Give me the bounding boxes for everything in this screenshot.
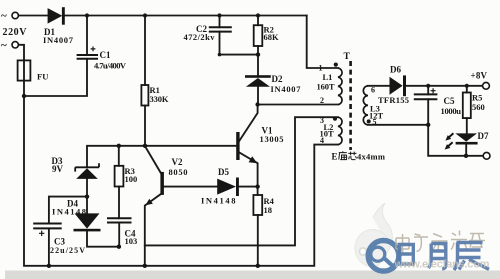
svg-text:T: T (344, 52, 351, 62)
svg-text:103: 103 (125, 236, 138, 246)
watermark text dianzifashaoyou (drawn strokes) (396, 231, 485, 255)
diode D6 (390, 75, 407, 96)
node C2/R2 bottom (256, 52, 260, 56)
svg-text:472/2kv: 472/2kv (184, 32, 216, 42)
capacitor C1 (77, 55, 98, 59)
wire: R3 bottom lead to C4 (118, 187, 120, 219)
svg-text:~: ~ (1, 40, 7, 52)
wire: R5 top lead (466, 86, 468, 93)
C3 plus sign (39, 231, 44, 236)
svg-text:18: 18 (264, 205, 273, 215)
svg-text:68K: 68K (264, 32, 280, 42)
node D2/V1 collector/L1 pin2 (255, 102, 259, 106)
node D7/negative rail (464, 154, 468, 158)
D7 light arrow 1 (445, 133, 453, 140)
resistor R5 (463, 93, 471, 119)
input terminal 2 (12, 42, 18, 48)
svg-text:330K: 330K (150, 94, 169, 104)
wire: D4 anode lead (86, 197, 88, 214)
wire: C2 top lead (219, 16, 221, 28)
input terminal 1 (12, 12, 18, 18)
svg-text:D2: D2 (272, 74, 283, 84)
wire: R2 top lead (257, 16, 259, 26)
node L3 pin5/C5 bottom (426, 123, 430, 127)
wire: R1 top lead (144, 16, 146, 86)
wire: top rail from D1 cathode to primary corner (65, 15, 307, 17)
L3 phasing dot (367, 119, 371, 123)
svg-text:4x4mm: 4x4mm (357, 152, 385, 162)
wire: V2 base lead to D5 anode (164, 186, 217, 188)
node R3 top (117, 144, 121, 148)
svg-text:C1: C1 (100, 50, 111, 60)
resistor R2 (254, 25, 263, 46)
transformer winding L1 (338, 68, 342, 105)
wire: feedback line from V2 emitter column to L2 pin3 (145, 117, 338, 245)
watermark logo ring (368, 241, 399, 272)
output terminal +8V (483, 82, 490, 89)
diode D5 (217, 178, 239, 197)
svg-text:4.7u/400V: 4.7u/400V (94, 61, 127, 71)
node D4/C4 (117, 245, 121, 249)
transistor V2 (160, 172, 164, 195)
svg-text:560: 560 (472, 102, 485, 112)
resistor R4 (253, 195, 262, 215)
svg-text:IN4007: IN4007 (271, 84, 302, 94)
node C1 bottom/left rail (22, 94, 26, 98)
C5 plus sign (431, 88, 436, 93)
label E core text (332, 151, 386, 161)
wire: C1 bottom lead to left rail (24, 59, 87, 96)
wire: input terminal 1 to D1 anode (18, 15, 47, 17)
wire: R4 bottom lead (257, 215, 259, 266)
wire: V1 base rail from D3 top corner (87, 146, 236, 167)
L1 phasing dot (334, 63, 338, 67)
capacitor C3 (33, 224, 62, 229)
transformer winding L3 (363, 86, 368, 125)
resistor R1 (141, 85, 148, 106)
wire: R3 top lead (118, 146, 120, 166)
wire: D4 cathode lead to C4 bottom node (87, 231, 119, 246)
node R1/top rail (143, 13, 147, 17)
resistor R3 (115, 166, 124, 187)
svg-text:8050: 8050 (169, 167, 188, 177)
diode D1 (48, 7, 65, 25)
svg-text:D6: D6 (390, 65, 401, 75)
svg-text:100: 100 (125, 174, 138, 184)
bottom gray band (5, 271, 500, 279)
svg-text:L1: L1 (323, 72, 333, 82)
wire: R4 top lead (257, 187, 259, 195)
svg-text:22u/25V: 22u/25V (50, 246, 85, 255)
wire: R1 bottom lead (144, 106, 146, 146)
C1 plus sign (91, 47, 96, 52)
svg-text:D5: D5 (218, 167, 229, 177)
svg-text:6: 6 (371, 86, 375, 95)
wire: primary top lead to L1 pin 1 (307, 16, 338, 69)
node D3/D4/C3 (85, 194, 89, 198)
svg-text:IN4007: IN4007 (43, 35, 74, 45)
capacitor C2 (209, 27, 232, 31)
node V2 emitter/ground rail (143, 264, 147, 268)
wire: L3 pin5 lead (368, 124, 428, 126)
svg-text:E: E (332, 152, 338, 162)
svg-text:FU: FU (37, 72, 48, 82)
node R5/output rail (465, 84, 469, 88)
wire: D2 anode lead down to node (257, 87, 259, 105)
svg-text:+8V: +8V (471, 71, 488, 81)
V2 emitter arrow (145, 199, 152, 206)
wire: V1 collector lead (239, 105, 257, 141)
node C2/top rail (217, 13, 221, 17)
watermark gray teardrop background (355, 203, 392, 267)
wire: C3 top lead from D3/D4 node (49, 197, 87, 224)
wire: C5 bottom lead (427, 99, 429, 125)
wire: AC input line2 / left rail / bottom rail / L2 pin4 lead (18, 45, 338, 266)
svg-text:~: ~ (1, 10, 7, 22)
D7 light arrow 2 (445, 142, 453, 149)
node R4/ground rail (256, 264, 260, 268)
wire: D3 anode lead to node (86, 179, 88, 197)
output terminal negative (483, 152, 490, 159)
zener D3 (75, 163, 99, 179)
wire: D5 cathode to V1 emitter node (239, 186, 258, 188)
transformer winding L2 (338, 117, 342, 144)
svg-text:1000u: 1000u (441, 106, 462, 116)
svg-text:TFR155: TFR155 (378, 95, 409, 105)
svg-text:5: 5 (373, 118, 377, 127)
LED D7 (455, 133, 477, 144)
svg-text:4: 4 (320, 136, 324, 145)
svg-text:13005: 13005 (260, 134, 284, 144)
wire: C4 bottom lead (118, 223, 120, 247)
watermark text riyuechen (drawn strokes) (400, 243, 489, 271)
wire: R2 bottom lead / D2 cathode lead (257, 46, 259, 75)
svg-text:V2: V2 (172, 157, 183, 167)
wire: node at V1 collector to L1 pin 2 (258, 104, 338, 106)
node D5/V1 emitter/R4 (255, 184, 259, 188)
node C2 corner (218, 53, 222, 57)
wire: output negative rail (428, 125, 483, 156)
capacitor C5 (414, 94, 438, 99)
svg-text:C3: C3 (54, 237, 65, 247)
node C5/output rail (426, 84, 430, 88)
node C1/top rail (85, 13, 89, 17)
node R2/top rail (256, 13, 260, 17)
node C3/ground rail (47, 264, 51, 268)
transistor V1 (236, 132, 239, 160)
capacitor C4 (107, 218, 132, 222)
svg-text:www.elecfans.com: www.elecfans.com (394, 259, 490, 271)
wire: C2 bottom lead to R2 bottom (220, 32, 259, 55)
wire: D6 cathode to +8V terminal (406, 85, 482, 87)
svg-text:D7: D7 (478, 131, 489, 141)
wire: L3 pin6 lead to D6 anode (368, 85, 390, 87)
wire: V2 emitter lead down to ground rail (145, 194, 161, 266)
V1 emitter arrow (249, 156, 258, 163)
wire: C1 branch top lead (86, 16, 88, 56)
svg-text:160T: 160T (317, 82, 335, 92)
wire: C3 bottom lead (48, 228, 50, 265)
svg-text:9V: 9V (52, 164, 64, 174)
svg-text:220V: 220V (3, 27, 28, 38)
wire: V2 collector lead (145, 146, 161, 172)
wire: C5 top lead (427, 86, 429, 95)
wire: V1 emitter lead down to D5 node (239, 153, 257, 187)
svg-text:2: 2 (320, 96, 324, 105)
diode D4 (74, 213, 101, 231)
transformer core dashed line (349, 61, 352, 150)
diode D2 (245, 75, 271, 87)
svg-text:C5: C5 (444, 96, 455, 106)
wire: D7 cathode lead (465, 145, 467, 156)
L2 phasing dot (333, 117, 337, 121)
node R1 bottom/V2 collector (143, 144, 147, 148)
wire: R5 bottom lead (466, 118, 468, 133)
fuse FU (18, 60, 31, 80)
